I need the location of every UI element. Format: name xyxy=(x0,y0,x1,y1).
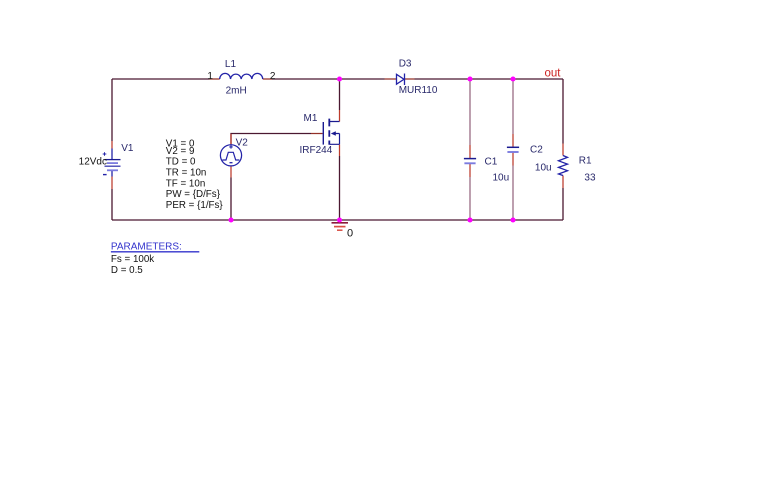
svg-text:C1: C1 xyxy=(485,156,498,167)
svg-text:V1: V1 xyxy=(121,143,134,154)
svg-text:10u: 10u xyxy=(493,172,510,183)
svg-text:D3: D3 xyxy=(399,59,412,70)
svg-text:C2: C2 xyxy=(530,144,543,155)
svg-text:Fs = 100k: Fs = 100k xyxy=(111,254,154,265)
svg-text:R1: R1 xyxy=(579,156,592,167)
svg-text:PER = {1/Fs}: PER = {1/Fs} xyxy=(166,200,224,211)
svg-text:12Vdc: 12Vdc xyxy=(79,156,107,167)
svg-text:V2 = 9: V2 = 9 xyxy=(166,146,195,157)
svg-text:2mH: 2mH xyxy=(226,86,247,97)
svg-text:TD = 0: TD = 0 xyxy=(166,157,196,168)
svg-text:10u: 10u xyxy=(535,162,552,173)
svg-text:IRF244: IRF244 xyxy=(300,145,333,156)
svg-text:TF = 10n: TF = 10n xyxy=(166,178,205,189)
svg-text:TR = 10n: TR = 10n xyxy=(166,168,207,179)
svg-text:L1: L1 xyxy=(225,59,237,70)
svg-text:M1: M1 xyxy=(304,113,318,124)
svg-text:V2: V2 xyxy=(236,138,249,149)
svg-text:2: 2 xyxy=(270,71,276,82)
svg-text:1: 1 xyxy=(207,71,213,82)
svg-text:D = 0.5: D = 0.5 xyxy=(111,265,143,276)
svg-text:out: out xyxy=(545,67,562,79)
svg-text:PARAMETERS:: PARAMETERS: xyxy=(111,242,182,253)
svg-text:MUR110: MUR110 xyxy=(399,85,438,96)
svg-text:0: 0 xyxy=(347,227,353,239)
svg-text:33: 33 xyxy=(584,172,596,183)
svg-text:PW = {D/Fs}: PW = {D/Fs} xyxy=(166,189,221,200)
